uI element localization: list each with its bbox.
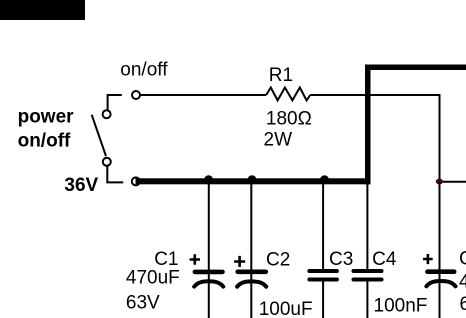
capacitor C1 lead top: [208, 184, 210, 318]
capacitor C2 curved plate: [237, 281, 266, 286]
svg-text:100uF: 100uF: [259, 299, 313, 318]
svg-text:470uF: 470uF: [459, 272, 466, 293]
svg-text:470uF: 470uF: [126, 268, 180, 289]
node: bus contact circle: [132, 177, 140, 185]
wire: rail drop to C5 node: [439, 94, 441, 182]
svg-text:C1: C1: [154, 249, 178, 270]
capacitor C2 top plate: [238, 269, 266, 274]
wire: 36V thick bus horizontal: [136, 178, 371, 184]
svg-text:63V: 63V: [126, 292, 160, 313]
corner mask bar (black): [0, 0, 85, 20]
capacitor C2 lead top: [250, 184, 252, 318]
capacitor C3 lead top: [322, 184, 324, 269]
svg-text:63V: 63V: [460, 294, 466, 315]
capacitor C5 lead top: [439, 182, 441, 318]
switch SW1 lever: [92, 115, 106, 156]
capacitor C2 plus sign: [234, 256, 245, 267]
svg-text:C5: C5: [459, 249, 466, 270]
svg-text:36V: 36V: [64, 175, 98, 196]
capacitor C3 lead bottom: [322, 282, 324, 318]
svg-text:2W: 2W: [264, 130, 293, 151]
capacitor C5 top plate: [427, 269, 454, 274]
node junction dot C2: [248, 175, 257, 184]
capacitor C3 top plate: [309, 269, 337, 273]
wire: thick top horizontal: [365, 65, 466, 71]
capacitor C3 bottom plate: [309, 278, 337, 282]
node junction dot C1: [204, 175, 213, 184]
switch SW1 lower terminal: [103, 158, 111, 166]
svg-text:C3: C3: [329, 249, 353, 270]
wire: top rail right of R1: [310, 94, 440, 96]
wire: bottom elbow from switch lower terminal to 36V bus: [107, 166, 123, 182]
wire: thick vertical riser: [365, 65, 371, 185]
wire: stub right from C5 node: [440, 181, 466, 183]
wire: top rail left of R1: [140, 94, 266, 96]
switch SW1 upper terminal: [103, 110, 111, 118]
capacitor C5 curved plate: [426, 281, 455, 286]
svg-text:100nF: 100nF: [374, 296, 428, 317]
svg-text:C4: C4: [372, 249, 397, 270]
resistor R1: [266, 88, 310, 101]
svg-text:on/off: on/off: [18, 131, 71, 152]
capacitor C5 plus sign: [423, 254, 433, 264]
node: top rail contact circle: [132, 91, 140, 99]
node junction dot C3: [320, 175, 329, 184]
svg-text:180Ω: 180Ω: [266, 109, 312, 130]
svg-text:R1: R1: [269, 65, 293, 86]
svg-text:power: power: [18, 106, 75, 127]
capacitor C4 lead top: [366, 184, 368, 269]
capacitor C1 plus sign: [190, 254, 200, 265]
capacitor C4 bottom plate: [354, 278, 382, 282]
capacitor C4 top plate: [354, 269, 382, 273]
svg-text:on/off: on/off: [120, 59, 168, 80]
svg-text:C2: C2: [266, 250, 290, 271]
wire: top elbow to switch upper terminal: [108, 95, 122, 110]
node junction dot C5 (dark red): [436, 179, 443, 185]
capacitor C4 lead bottom: [366, 282, 368, 318]
capacitor C1 curved plate: [194, 281, 223, 286]
capacitor C1 top plate: [195, 270, 223, 275]
